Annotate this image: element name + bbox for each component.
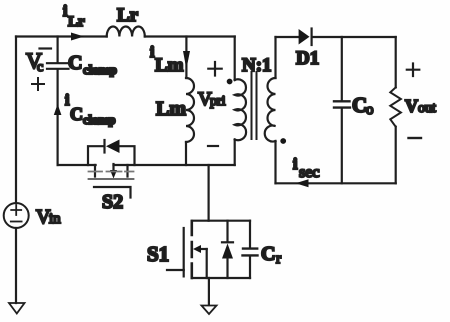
current arrow iCclamp <box>54 104 62 115</box>
label Vc plus <box>32 78 44 90</box>
svg-text:pri: pri <box>210 94 226 109</box>
capacitor Co <box>341 37 343 100</box>
transformer secondary winding <box>274 37 276 78</box>
label Vc minus <box>40 47 52 49</box>
transistor S2 (lateral MOSFET) <box>95 165 128 177</box>
svg-text:D1: D1 <box>296 48 319 69</box>
svg-text:C: C <box>70 104 83 124</box>
wire drain node <box>192 220 250 222</box>
node dot secondary <box>280 138 286 144</box>
wire top rail primary side <box>16 35 235 37</box>
svg-text:r: r <box>276 251 281 267</box>
svg-text:C: C <box>68 52 82 74</box>
transformer core <box>252 72 257 139</box>
svg-text:C: C <box>352 93 367 117</box>
wire S2 left segment <box>58 164 96 166</box>
diode body of S1 <box>226 221 228 242</box>
svg-text:out: out <box>418 101 436 116</box>
svg-text:sec: sec <box>299 164 319 181</box>
label Vout minus <box>409 137 422 139</box>
capacitor Cclamp <box>56 37 58 63</box>
diode of S2 clamp (anti-parallel) <box>88 146 135 165</box>
svg-text:Lr: Lr <box>117 5 139 26</box>
current arrow isec <box>296 179 309 187</box>
wire drain vertical <box>208 165 210 221</box>
svg-text:S1: S1 <box>147 242 169 266</box>
svg-text:clamp: clamp <box>83 113 116 127</box>
svg-text:S2: S2 <box>102 191 123 213</box>
svg-text:Lm: Lm <box>156 98 186 120</box>
svg-text:Lm: Lm <box>155 55 184 76</box>
ground left <box>9 303 25 314</box>
label Vout plus <box>407 64 420 77</box>
transistor S1 (MOSFET) <box>167 269 184 271</box>
svg-text:C: C <box>261 243 275 265</box>
current arrow iLr <box>66 36 72 38</box>
wire source bottom rail <box>192 277 250 279</box>
capacitor Cr <box>249 221 251 248</box>
svg-text:in: in <box>49 211 61 227</box>
svg-text:o: o <box>366 102 374 118</box>
wire iLm branch <box>185 37 187 79</box>
ground center <box>208 278 210 305</box>
source Vin <box>4 203 29 228</box>
svg-text:c: c <box>37 60 43 75</box>
svg-text:N:1: N:1 <box>242 55 272 76</box>
transformer primary winding <box>234 37 236 81</box>
wire rail (S2 right to primary) <box>114 164 235 166</box>
inductor Lm <box>186 78 194 142</box>
label Vpri plus <box>208 62 221 76</box>
wire secondary bottom rail <box>276 182 396 184</box>
wire below Vin <box>15 228 17 303</box>
wire left vertical <box>15 37 17 204</box>
svg-text:i: i <box>293 156 298 173</box>
svg-text:Lr: Lr <box>68 14 85 30</box>
svg-text:clamp: clamp <box>83 62 117 77</box>
label Vpri minus <box>208 145 218 147</box>
node dot primary <box>227 79 233 85</box>
resistor Vout <box>395 37 397 87</box>
current arrow iLm <box>183 51 190 69</box>
svg-text:V: V <box>405 96 418 116</box>
inductor Lr <box>107 27 145 37</box>
wire secondary top <box>276 36 299 38</box>
diode D1 <box>299 29 310 45</box>
